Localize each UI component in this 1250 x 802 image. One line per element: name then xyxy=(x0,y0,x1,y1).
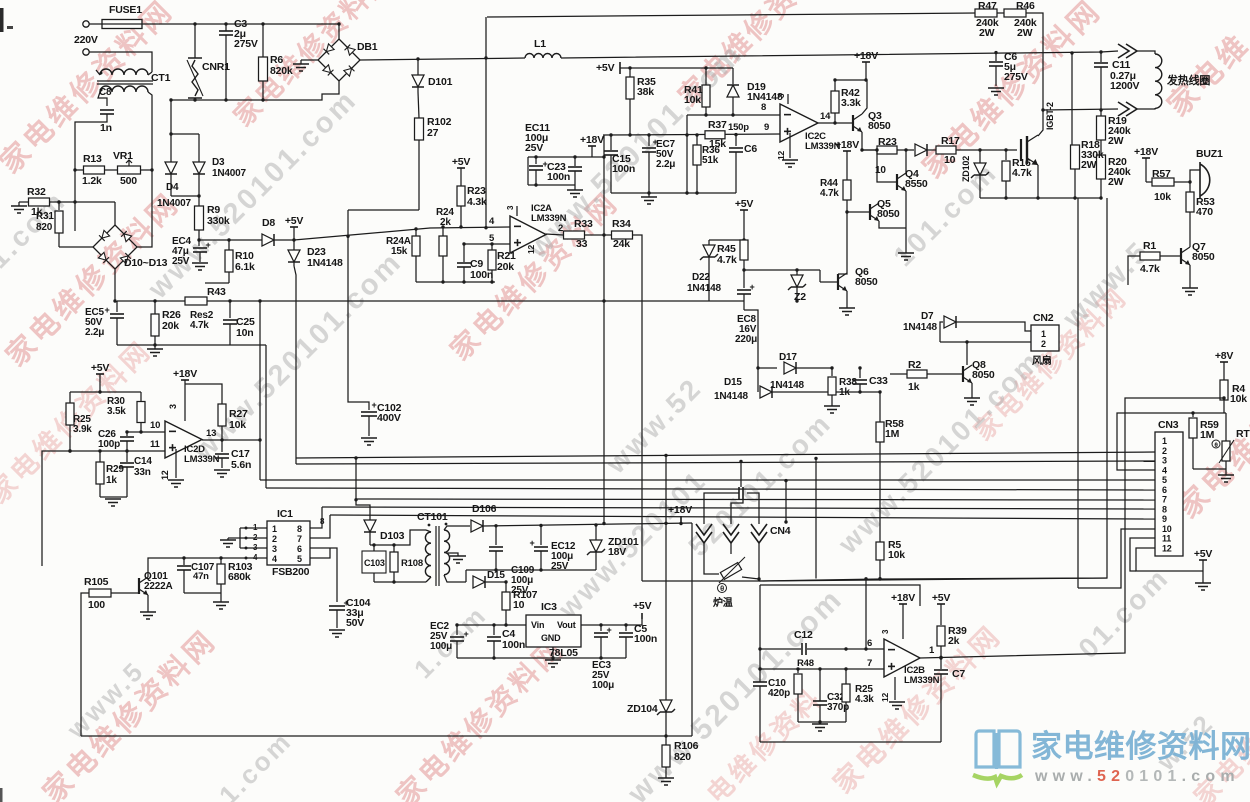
capacitor C5 xyxy=(625,625,627,631)
svg-text:6: 6 xyxy=(1162,485,1167,495)
capacitor C32 xyxy=(819,669,821,701)
op-amp IC2A xyxy=(510,216,546,253)
wire +18V rail right vertical xyxy=(691,523,693,736)
zener ZD104 xyxy=(665,455,667,700)
svg-text:C7: C7 xyxy=(952,668,965,680)
svg-text:20k: 20k xyxy=(497,261,514,273)
svg-text:2W: 2W xyxy=(979,27,995,39)
svg-text:R13: R13 xyxy=(83,153,102,165)
svg-text:+5V: +5V xyxy=(932,592,951,604)
svg-text:3: 3 xyxy=(272,544,277,554)
zener D22 xyxy=(708,240,710,245)
resistor R16 xyxy=(1005,150,1007,160)
wire CN2 pin2 to Q8 collector xyxy=(940,341,1031,343)
wire Q4/Q5 collectors xyxy=(905,191,907,228)
resistor R24A xyxy=(415,229,417,236)
svg-text:4: 4 xyxy=(272,554,277,564)
svg-text:330k: 330k xyxy=(207,215,230,227)
connector CN3 xyxy=(1155,432,1183,556)
wire lower rail (CNR1/C3/R6 bottoms to DB1) xyxy=(170,81,339,100)
svg-text:FSB200: FSB200 xyxy=(272,566,310,578)
wire from sensor line down to pin6 xyxy=(865,579,867,649)
resistor R9 xyxy=(198,196,200,206)
svg-text:2: 2 xyxy=(1162,446,1167,456)
resistor R103 xyxy=(220,558,222,564)
resistor R30 xyxy=(140,392,142,402)
svg-text:2W: 2W xyxy=(1081,159,1097,171)
capacitor C103 (boxed) xyxy=(362,551,386,573)
svg-text:400V: 400V xyxy=(377,412,401,424)
svg-text:1M: 1M xyxy=(1200,429,1215,441)
svg-text:27: 27 xyxy=(427,127,439,139)
wire bridge connections xyxy=(114,202,116,225)
svg-text:38k: 38k xyxy=(637,86,654,98)
resistor R36 xyxy=(696,135,698,145)
capacitor C11 xyxy=(1100,52,1102,62)
wire regulator bottom rail + ground xyxy=(457,657,626,659)
svg-text:12: 12 xyxy=(880,692,890,702)
wire plus line left drop xyxy=(42,451,70,566)
svg-text:ZD102: ZD102 xyxy=(961,156,971,182)
svg-text:www.520101.com: www.520101.com xyxy=(1034,768,1240,785)
svg-text:D15: D15 xyxy=(724,377,742,388)
svg-text:+18V: +18V xyxy=(835,139,859,151)
svg-text:+: + xyxy=(529,538,534,548)
bus line to pin7 (from D103 node) xyxy=(356,499,1155,500)
capacitor C104 xyxy=(329,605,345,607)
resistor R10 xyxy=(228,240,230,250)
svg-text:风扇: 风扇 xyxy=(1032,354,1052,367)
svg-text:1200V: 1200V xyxy=(1110,80,1140,92)
resistor R31 xyxy=(58,202,60,210)
wire output to Q3 base xyxy=(835,122,853,124)
svg-text:8050: 8050 xyxy=(868,120,891,132)
svg-text:20k: 20k xyxy=(162,320,179,332)
svg-text:3.5k: 3.5k xyxy=(107,406,126,417)
svg-text:C6: C6 xyxy=(744,143,757,155)
svg-text:炉温: 炉温 xyxy=(713,596,733,609)
capacitor C102 branch xyxy=(348,210,369,410)
svg-text:8050: 8050 xyxy=(877,208,900,220)
svg-text:50V: 50V xyxy=(346,617,364,629)
svg-text:12: 12 xyxy=(526,244,536,254)
capacitor C25 xyxy=(229,301,231,318)
wire EC5 row xyxy=(117,300,185,302)
svg-text:14: 14 xyxy=(820,111,831,122)
svg-text:3.9k: 3.9k xyxy=(73,424,92,435)
svg-text:1: 1 xyxy=(1162,436,1167,446)
svg-text:1n: 1n xyxy=(100,122,112,134)
svg-text:10k: 10k xyxy=(888,549,905,561)
svg-text:500: 500 xyxy=(120,175,137,187)
svg-text:220μ: 220μ xyxy=(735,334,757,345)
svg-text:12: 12 xyxy=(1162,543,1172,553)
svg-text:820: 820 xyxy=(36,222,53,233)
resistor R38 xyxy=(831,368,833,376)
diode D101 xyxy=(417,59,419,75)
capacitor C3 xyxy=(219,30,233,32)
wire R47-R46 xyxy=(997,12,1004,14)
svg-text:8550: 8550 xyxy=(905,178,928,190)
wire EC5 block bottom rail xyxy=(117,344,266,346)
wire Q6 collector chain xyxy=(838,212,847,274)
svg-text:100n: 100n xyxy=(612,163,635,175)
svg-text:R1: R1 xyxy=(1143,240,1156,252)
svg-text:θ: θ xyxy=(720,584,724,593)
wire bottom rail of input network xyxy=(416,281,495,283)
svg-text:2.2μ: 2.2μ xyxy=(85,327,104,338)
scan edge artifact top-left xyxy=(0,8,4,32)
svg-text:15k: 15k xyxy=(391,246,408,257)
wire EC11 block top xyxy=(528,156,604,158)
bus line to pin8 xyxy=(322,507,1155,509)
capacitor (spark gap) at CN4 xyxy=(738,487,740,499)
wire CN3 pin10 hook xyxy=(1078,529,1155,588)
thermal sensor (furnace temp) xyxy=(720,563,741,580)
svg-text:D106: D106 xyxy=(472,503,497,515)
svg-text:9: 9 xyxy=(764,122,769,133)
wire CN4 top links xyxy=(704,493,739,524)
svg-text:100n: 100n xyxy=(547,171,570,183)
svg-text:R34: R34 xyxy=(612,218,631,230)
electrolytic EC4 xyxy=(198,240,200,246)
ground at bridge negative xyxy=(300,60,302,64)
wire CN3 pin12 hook to +5V xyxy=(1136,548,1203,571)
svg-text:420p: 420p xyxy=(768,688,790,699)
resistor R20 xyxy=(1097,155,1106,179)
diode D23 xyxy=(293,240,295,250)
electrolytic EC5 xyxy=(116,301,118,312)
electrolytic EC2 xyxy=(457,624,506,626)
svg-text:275V: 275V xyxy=(1004,71,1028,83)
wire minus input line (pin4) xyxy=(294,227,510,240)
IGBT (IGBT-2) xyxy=(1020,139,1022,161)
resistor R106 xyxy=(665,736,667,745)
wire terminal to CT1 xyxy=(89,52,152,72)
svg-text:1N4007: 1N4007 xyxy=(212,168,246,179)
node junction fuse rail xyxy=(337,22,340,25)
connector CN4 pin2 xyxy=(723,524,739,535)
wire IC1 pin4 to Q101 collector xyxy=(148,558,240,577)
resistor R44 xyxy=(843,180,851,200)
svg-text:100n: 100n xyxy=(634,633,657,645)
resistor R19 xyxy=(1100,110,1102,116)
wire C11 bottom rail xyxy=(1043,109,1118,110)
svg-text:C12: C12 xyxy=(794,629,813,641)
bus line to pin6 xyxy=(266,488,1155,490)
bridge rectifier D10~D13 xyxy=(93,225,137,269)
resistor R45 xyxy=(740,240,748,260)
resistor R35 xyxy=(629,68,631,77)
wire R105 left down to bottom rail xyxy=(81,593,89,736)
wire bottom feedback rail xyxy=(81,735,692,737)
svg-text:+: + xyxy=(371,400,376,410)
svg-text:1N4148: 1N4148 xyxy=(903,322,937,333)
wire diode to R17 xyxy=(927,149,936,151)
resistor R6 xyxy=(262,24,264,57)
wire Q7 collector xyxy=(1189,246,1191,247)
resistor R21 xyxy=(491,244,493,250)
wire DB1 left to ground xyxy=(301,59,318,61)
heating coil winding xyxy=(1137,51,1155,54)
wire Q5 emitter to ground xyxy=(879,221,906,228)
svg-text:10: 10 xyxy=(1162,524,1172,534)
svg-text:220V: 220V xyxy=(74,34,98,46)
svg-text:D101: D101 xyxy=(428,76,453,88)
resistor R59 xyxy=(1192,413,1194,417)
wire EC11 block bottom + ground xyxy=(528,184,575,186)
svg-text:2W: 2W xyxy=(1108,135,1124,147)
wire drive line xyxy=(862,149,877,151)
terminal L (220V input top) xyxy=(83,21,89,27)
wire IC1 left pins xyxy=(240,527,267,529)
wire Q7 base xyxy=(1160,255,1181,257)
wire vertical x687 xyxy=(686,115,688,193)
zener Z2 xyxy=(796,270,798,275)
wire R45 bottom node xyxy=(744,269,820,271)
wire sensor right lead xyxy=(742,577,759,579)
diode D103 xyxy=(356,458,370,520)
svg-text:+18V: +18V xyxy=(1134,146,1158,158)
resistor R25 (4.3k) xyxy=(845,669,847,684)
wire +18V feedback vertical xyxy=(603,135,605,524)
wire pin4 hook to R59/RT rail xyxy=(1117,413,1226,470)
svg-text:6.1k: 6.1k xyxy=(235,261,255,273)
svg-text:C8: C8 xyxy=(99,87,112,98)
wire CN4 bottoms xyxy=(730,543,732,554)
svg-text:R43: R43 xyxy=(207,286,226,298)
wire bus4 feeder vertical xyxy=(265,345,267,488)
svg-text:8050: 8050 xyxy=(855,276,878,288)
wire R59/RT bottom rail + ground xyxy=(1193,468,1226,470)
wire EC4 node row xyxy=(199,239,294,241)
wire IC2B block top line xyxy=(760,585,920,606)
svg-text:10k: 10k xyxy=(684,94,701,106)
electrolytic EC7 xyxy=(648,135,650,146)
svg-text:D22: D22 xyxy=(692,272,710,283)
wire CNR1 top to mains rail xyxy=(194,24,196,58)
svg-text:D4: D4 xyxy=(166,182,179,193)
svg-text:D17: D17 xyxy=(779,352,797,363)
svg-text:820k: 820k xyxy=(270,65,293,77)
svg-text:2222A: 2222A xyxy=(144,581,172,592)
wire rail down right vertical B xyxy=(759,198,1107,581)
wire R105 to Q101 base xyxy=(111,592,139,594)
diode D15 (pulse) xyxy=(760,386,772,398)
svg-text:10: 10 xyxy=(944,154,956,166)
svg-text:2W: 2W xyxy=(1017,27,1033,39)
svg-text:+18V: +18V xyxy=(891,592,915,604)
svg-text:C14: C14 xyxy=(134,456,152,467)
wire CT1 secondary right down to VR1 xyxy=(148,92,152,170)
svg-text:100p: 100p xyxy=(98,439,120,450)
svg-text:D3: D3 xyxy=(212,157,225,168)
svg-text:820: 820 xyxy=(674,751,691,763)
diode D19 xyxy=(732,68,734,84)
svg-text:CN3: CN3 xyxy=(1158,419,1179,431)
bus line to pin3 xyxy=(296,461,1155,464)
svg-text:1N4148: 1N4148 xyxy=(307,257,343,269)
svg-text:RT: RT xyxy=(1236,428,1250,440)
svg-text:2W: 2W xyxy=(1108,176,1124,188)
capacitor C107 xyxy=(183,558,185,565)
svg-text:1N4148: 1N4148 xyxy=(714,391,748,402)
wire plus input line xyxy=(70,450,165,452)
pin 12 ground of IC2C xyxy=(789,133,791,158)
svg-text:4.7k: 4.7k xyxy=(1012,167,1032,179)
svg-text:4.3k: 4.3k xyxy=(855,694,874,705)
svg-text:25V: 25V xyxy=(525,142,543,154)
wire vertical x486 to IC2A pin4 xyxy=(485,17,487,228)
svg-text:R31: R31 xyxy=(36,211,54,222)
wire IC2C minus line pin8 xyxy=(687,114,780,116)
svg-text:+5V: +5V xyxy=(452,156,471,168)
wire Q101 emitter to ground xyxy=(147,595,149,612)
capacitor C9 xyxy=(463,244,465,262)
wire R33-R34 junction xyxy=(585,234,613,236)
electrolytic EC8 xyxy=(743,270,745,288)
diode D106 xyxy=(471,520,483,532)
svg-text:R17: R17 xyxy=(941,135,960,147)
resistor R42 xyxy=(834,80,836,92)
wire top of D4/D3 from lower rail xyxy=(170,100,172,162)
svg-text:4.7k: 4.7k xyxy=(190,320,209,331)
varistor CNR1 xyxy=(192,60,198,96)
diode D4 xyxy=(165,162,177,174)
transistor Q6 xyxy=(837,274,839,290)
wire spark gap to bus xyxy=(740,461,742,487)
wire R57 to buzzer xyxy=(1174,170,1200,182)
ground below Q5 xyxy=(898,252,914,254)
svg-text:R29: R29 xyxy=(106,464,124,475)
svg-text:+5V: +5V xyxy=(633,600,652,612)
svg-text:1: 1 xyxy=(1041,329,1046,339)
svg-text:100n: 100n xyxy=(470,269,493,281)
electrolytic EC12 xyxy=(540,526,542,545)
svg-text:680k: 680k xyxy=(228,571,251,583)
svg-text:8050: 8050 xyxy=(972,369,995,381)
svg-text:24k: 24k xyxy=(613,238,630,250)
svg-text:LM339N: LM339N xyxy=(904,675,940,686)
svg-text:DB1: DB1 xyxy=(357,41,378,53)
svg-text:+: + xyxy=(205,240,210,250)
wire Q4 base xyxy=(877,150,897,182)
resistor R25 xyxy=(69,392,71,403)
svg-text:2: 2 xyxy=(272,534,277,544)
svg-text:ZD104: ZD104 xyxy=(627,703,658,715)
wire IC2B left vertical xyxy=(759,585,761,682)
site logo green swoosh xyxy=(973,775,1022,783)
svg-text:1k: 1k xyxy=(908,381,920,393)
svg-text:47n: 47n xyxy=(193,571,209,582)
svg-text:100: 100 xyxy=(88,599,105,611)
resistor R107 xyxy=(505,582,507,592)
wire feedback vertical V1 xyxy=(259,301,261,480)
svg-text:8: 8 xyxy=(297,524,302,534)
diode D16 (drive) xyxy=(915,144,927,156)
wire CNR1 bottom xyxy=(194,98,196,100)
site logo book icon xyxy=(976,731,1020,769)
svg-text:1M: 1M xyxy=(885,428,900,440)
svg-text:Vin: Vin xyxy=(531,620,544,630)
ground below EC4 xyxy=(192,262,208,264)
wire IGBT emitter to rail xyxy=(1037,165,1039,198)
capacitor C4 xyxy=(493,625,495,635)
svg-text:100μ: 100μ xyxy=(430,641,452,652)
electrolytic EC3 xyxy=(600,625,602,631)
svg-text:+: + xyxy=(104,305,109,315)
wire CT1 primary xyxy=(96,70,100,75)
svg-text:CT101: CT101 xyxy=(417,511,448,523)
resistor R39 xyxy=(937,626,945,646)
wire DB1 right to L1 rail xyxy=(360,58,525,60)
wire bus to +18V rail feeder xyxy=(785,481,787,522)
resistor R26 xyxy=(154,301,156,314)
wire EC8 to pulse diodes xyxy=(744,310,758,392)
wire secondary gnd rail xyxy=(466,569,596,571)
svg-text:2.2μ: 2.2μ xyxy=(656,159,675,170)
wire IC2B outer loop bottom xyxy=(760,741,941,743)
svg-text:12: 12 xyxy=(776,150,786,160)
wire CT1 secondary left to C8 xyxy=(98,92,107,106)
wire Q8 emitter to ground xyxy=(971,383,973,398)
svg-text:家电维修资料网: 家电维修资料网 xyxy=(1031,729,1250,764)
svg-text:CT1: CT1 xyxy=(151,72,171,84)
wire R17 to IGBT gate xyxy=(956,149,1017,151)
svg-text:33: 33 xyxy=(576,238,588,250)
wire secondary +18V rail xyxy=(483,523,692,526)
svg-text:D10~D13: D10~D13 xyxy=(124,257,168,269)
svg-text:1.2k: 1.2k xyxy=(82,175,102,187)
svg-text:275V: 275V xyxy=(234,38,258,50)
wire Q3 emitter to drive line xyxy=(862,132,877,150)
resistor R53 xyxy=(1189,182,1191,192)
svg-text:D8: D8 xyxy=(262,217,275,229)
wire emitter rail xyxy=(980,197,1101,199)
wire minus input line pin6 xyxy=(760,648,801,650)
wire D4/D3 junction xyxy=(171,195,199,197)
svg-text:1N4007: 1N4007 xyxy=(157,198,191,209)
svg-text:13: 13 xyxy=(206,428,216,439)
svg-text:IGBT-2: IGBT-2 xyxy=(1045,102,1055,130)
svg-text:R105: R105 xyxy=(84,576,109,588)
svg-text:8: 8 xyxy=(761,102,766,113)
wire divider rail xyxy=(70,391,141,393)
inductor L1 xyxy=(525,54,561,59)
diode D7 xyxy=(940,322,943,342)
svg-text:+: + xyxy=(749,282,754,292)
wire R32 to node xyxy=(50,201,116,203)
svg-text:5: 5 xyxy=(297,554,302,564)
svg-text:33n: 33n xyxy=(134,467,151,478)
heating coil bottom lead xyxy=(1118,102,1129,116)
svg-text:2k: 2k xyxy=(948,635,960,647)
svg-text:4.3k: 4.3k xyxy=(467,196,487,208)
svg-text:5.6n: 5.6n xyxy=(231,459,251,471)
svg-text:12: 12 xyxy=(160,470,170,480)
wire Q6 base xyxy=(820,281,838,283)
op-amp IC2D xyxy=(165,421,202,458)
transistor Q101 xyxy=(138,578,140,594)
svg-text:+5V: +5V xyxy=(735,198,754,210)
wire plus input line pin7 xyxy=(760,668,884,670)
svg-text:D7: D7 xyxy=(921,311,934,322)
svg-text:R32: R32 xyxy=(27,186,46,198)
wire IC1 pins1-3 common + ground xyxy=(239,528,241,548)
svg-text:3.3k: 3.3k xyxy=(841,97,861,109)
bus line to pin5 (from IC2D out) xyxy=(260,479,1155,481)
connector CN4 pin1 xyxy=(696,524,712,535)
